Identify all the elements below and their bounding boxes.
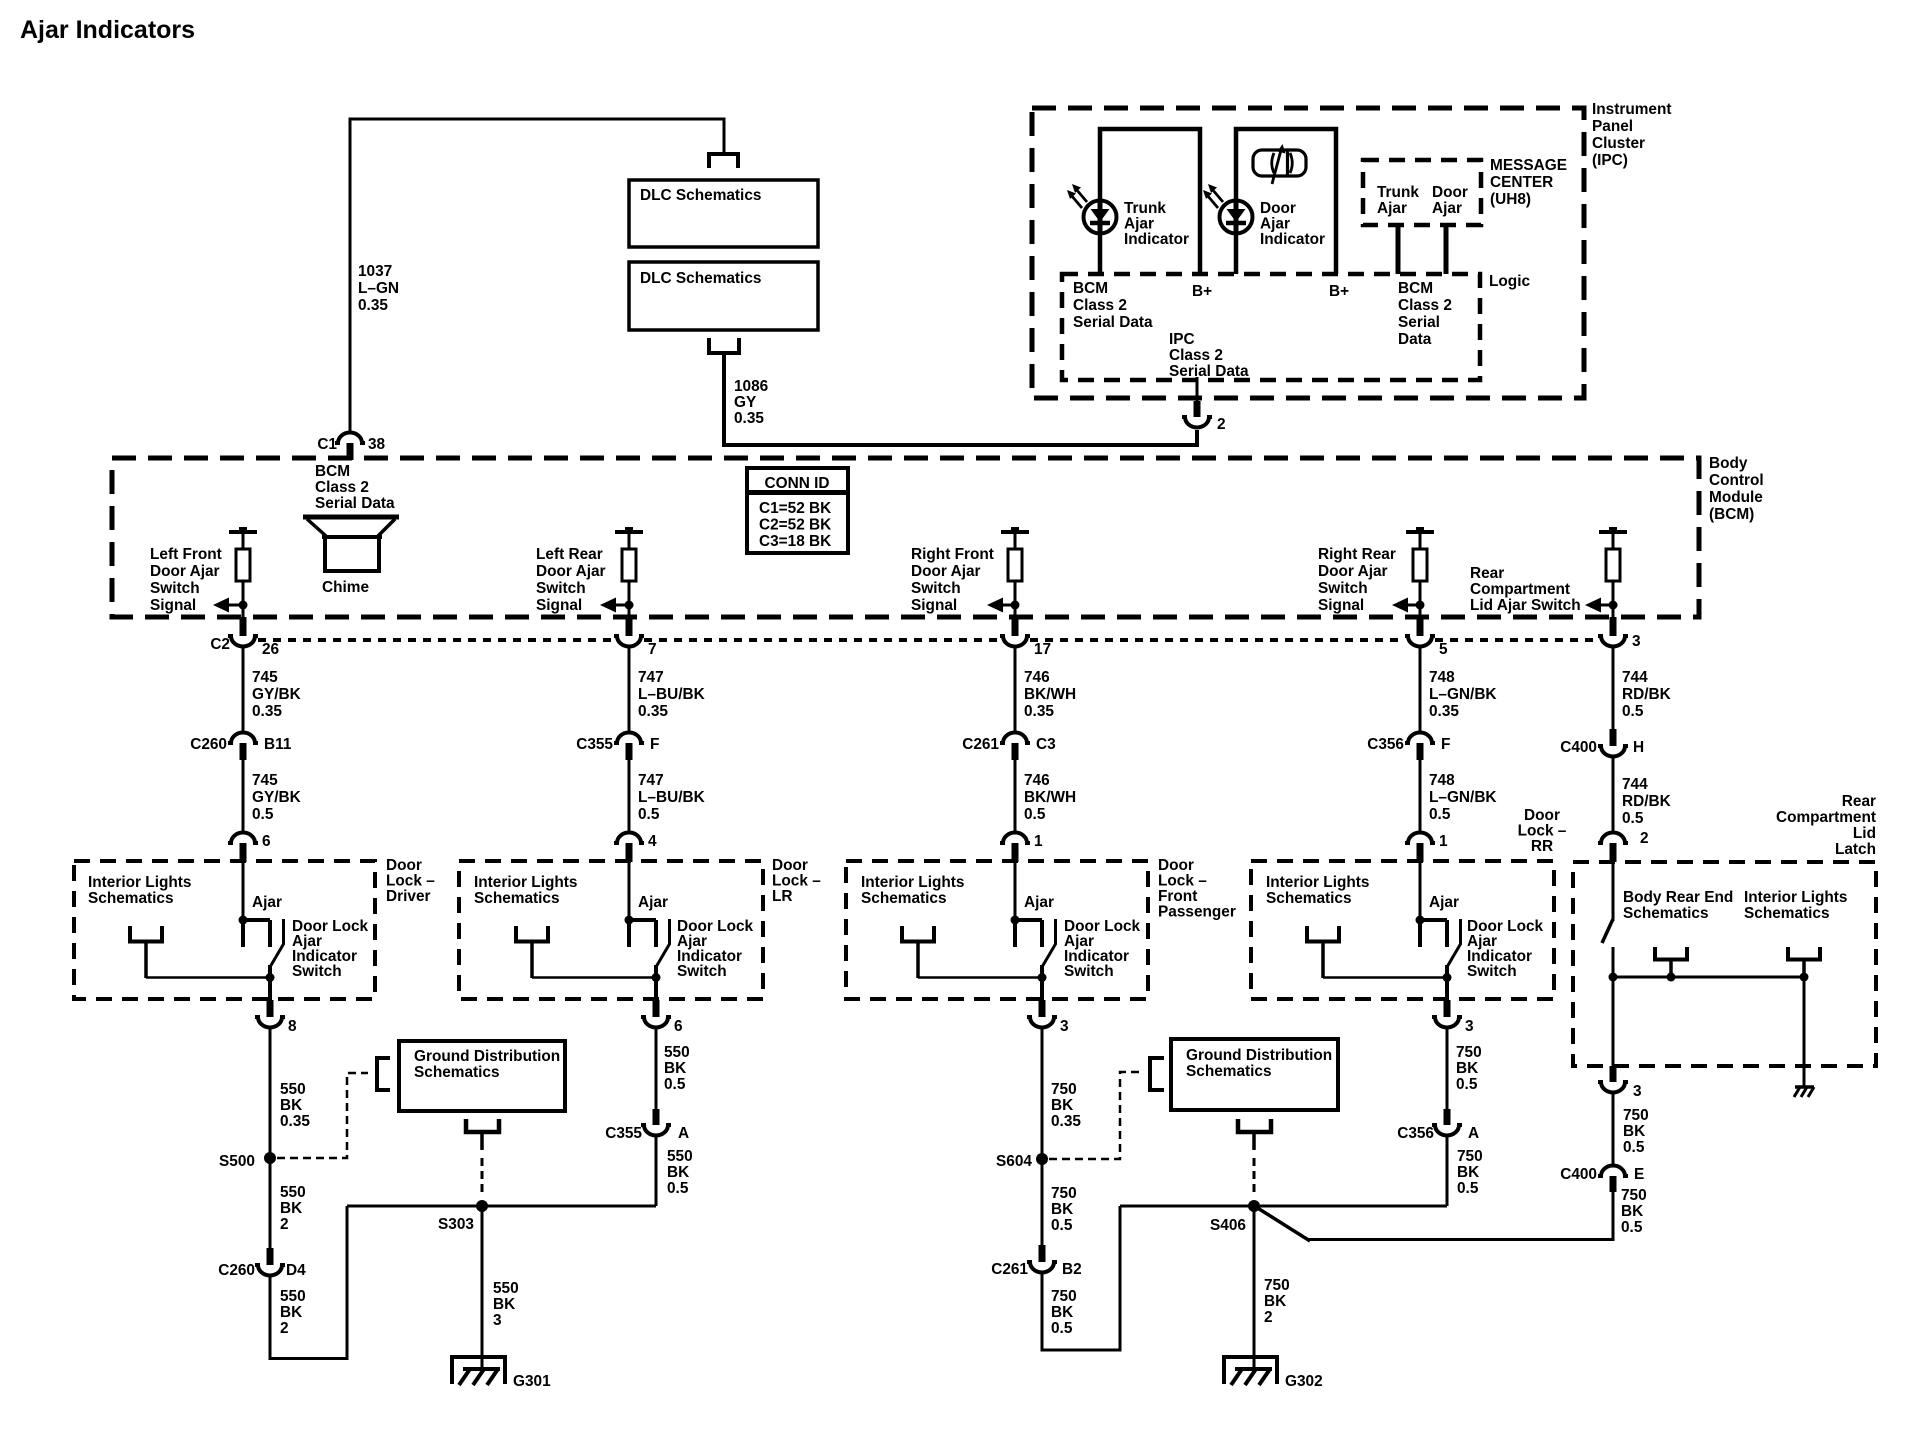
box door lock switch 2 dashed: [459, 861, 763, 999]
wire diagonal to S406: [1256, 1207, 1310, 1241]
svg-text:Switch: Switch: [150, 580, 200, 597]
svg-text:2: 2: [280, 1320, 289, 1337]
svg-text:Ajar: Ajar: [1024, 894, 1054, 911]
box CONN ID: [747, 468, 848, 553]
svg-text:6: 6: [674, 1018, 683, 1035]
connector BCM C2 pin 7: [626, 617, 633, 636]
svg-text:Latch: Latch: [1835, 841, 1876, 858]
svg-text:C261: C261: [962, 736, 999, 753]
arrow left front door ajar switch signal: [223, 604, 243, 607]
svg-text:BK: BK: [1457, 1164, 1479, 1181]
connector door switch ground pin 6: [653, 1000, 660, 1017]
box DLC Schematics upper: [629, 180, 818, 247]
svg-text:BK/WH: BK/WH: [1024, 789, 1076, 806]
connector C260 pin B11: [228, 733, 258, 743]
svg-text:Indicator: Indicator: [1124, 231, 1189, 248]
box door lock switch 3 dashed: [846, 861, 1148, 999]
connector door switch pin 2: [1598, 833, 1628, 844]
wire S604 to ground distribution dashed: [1049, 1072, 1141, 1159]
svg-text:Door: Door: [386, 857, 422, 874]
connector C260 pin D4: [267, 1248, 274, 1265]
box rear compartment lid latch dashed: [1573, 862, 1876, 1066]
svg-text:BK/WH: BK/WH: [1024, 686, 1076, 703]
svg-text:0.5: 0.5: [1456, 1076, 1478, 1093]
box Ground Distribution Schematics B: [1171, 1039, 1338, 1110]
svg-text:550: 550: [280, 1288, 306, 1305]
svg-text:5: 5: [1439, 641, 1448, 658]
svg-text:A: A: [678, 1125, 689, 1142]
svg-text:0.5: 0.5: [1024, 806, 1046, 823]
svg-text:Compartment: Compartment: [1776, 809, 1876, 826]
svg-text:Interior Lights: Interior Lights: [1744, 889, 1847, 906]
svg-text:BK: BK: [1051, 1201, 1073, 1218]
svg-text:0.35: 0.35: [1429, 703, 1459, 720]
wire right front door ajar to connector: [1014, 605, 1017, 618]
svg-text:S604: S604: [996, 1153, 1032, 1170]
wire 550 BK 0.5 upper: [655, 1029, 658, 1110]
svg-text:0.5: 0.5: [252, 806, 274, 823]
resistor rear compartment lid ajar switch sense: [1599, 527, 1627, 601]
svg-text:0.35: 0.35: [734, 410, 764, 427]
connector BCM C2 pin 17: [1012, 617, 1019, 636]
svg-text:1: 1: [1439, 833, 1448, 850]
svg-text:0.35: 0.35: [252, 703, 282, 720]
svg-text:B+: B+: [1329, 283, 1349, 300]
svg-text:2: 2: [1264, 1309, 1273, 1326]
LED door ajar indicator: [1203, 184, 1253, 234]
wire lamp return 1: [146, 976, 270, 979]
connector door switch pin 1: [1000, 833, 1030, 844]
wire 1086 GY from DLC to IPC connector 2: [724, 351, 1197, 445]
connector door switch pin 4: [614, 833, 644, 844]
wire 744 rear compartment lid ajar upper: [1612, 648, 1615, 732]
svg-text:744: 744: [1622, 669, 1648, 686]
svg-text:GY/BK: GY/BK: [252, 789, 301, 806]
svg-text:0.5: 0.5: [1622, 810, 1644, 827]
wire right rear door ajar to connector: [1419, 605, 1422, 618]
connector BCM C2 pin 26: [240, 617, 247, 636]
svg-text:Door: Door: [1524, 807, 1560, 824]
svg-text:RR: RR: [1531, 838, 1553, 855]
switch door lock ajar indicator 1: [239, 916, 284, 1001]
svg-text:Indicator: Indicator: [1260, 231, 1325, 248]
arrow right rear door ajar switch signal: [1402, 604, 1420, 607]
wire left rear door ajar to connector: [628, 605, 631, 618]
connector C356 pin F: [1405, 733, 1435, 743]
bracket body rear end feed: [1655, 947, 1687, 960]
wire 744 rear compartment lid ajar lower: [1612, 758, 1615, 832]
wire S406 bus: [1120, 1205, 1447, 1208]
svg-text:745: 745: [252, 772, 278, 789]
svg-text:DLC Schematics: DLC Schematics: [640, 270, 761, 287]
node switch common 1: [266, 973, 275, 982]
svg-text:Interior Lights: Interior Lights: [1266, 874, 1369, 891]
wire ground distribution A dashed: [481, 1158, 484, 1194]
connector C261 pin C3: [1000, 733, 1030, 743]
connector 2 IPC: [1194, 401, 1201, 417]
wire lid latch common: [1612, 947, 1615, 1067]
wire 747 left rear door ajar lower: [628, 758, 631, 832]
svg-text:G302: G302: [1285, 1373, 1323, 1390]
svg-text:Class 2: Class 2: [1398, 297, 1452, 314]
svg-text:550: 550: [664, 1044, 690, 1061]
svg-text:746: 746: [1024, 772, 1050, 789]
svg-text:Body Rear End: Body Rear End: [1623, 889, 1733, 906]
connector BCM C2 pin 3: [1610, 617, 1617, 636]
svg-text:G301: G301: [513, 1373, 551, 1390]
svg-text:0.5: 0.5: [638, 806, 660, 823]
box Ground Distribution Schematics A: [399, 1041, 565, 1111]
svg-text:C2=52 BK: C2=52 BK: [759, 517, 831, 534]
ground G302: [1224, 1357, 1277, 1385]
svg-text:C1=52 BK: C1=52 BK: [759, 500, 831, 517]
wire 750 BK 0.5 col4 upper: [1446, 1029, 1449, 1110]
splice S303: [476, 1200, 488, 1212]
svg-text:750: 750: [1051, 1185, 1077, 1202]
wire door ajar to logic: [1444, 224, 1449, 274]
svg-text:Left Front: Left Front: [150, 546, 222, 563]
svg-text:C2: C2: [210, 636, 230, 653]
svg-text:Lid: Lid: [1853, 825, 1876, 842]
svg-text:Switch: Switch: [292, 963, 342, 980]
LED trunk ajar indicator: [1067, 184, 1117, 234]
bracket interior lights feed 1: [130, 926, 162, 942]
wire lamp return 3: [918, 976, 1042, 979]
svg-text:Signal: Signal: [911, 597, 957, 614]
wire dotted BCM connector row: [258, 638, 614, 642]
svg-text:0.35: 0.35: [358, 297, 388, 314]
svg-text:0.5: 0.5: [1457, 1180, 1479, 1197]
connector door switch ground pin 3: [1039, 1000, 1046, 1017]
svg-text:BK: BK: [1051, 1097, 1073, 1114]
svg-text:Compartment: Compartment: [1470, 581, 1570, 598]
svg-text:750: 750: [1621, 1187, 1647, 1204]
svg-text:(IPC): (IPC): [1592, 152, 1628, 169]
wire left front door ajar to connector: [242, 605, 245, 618]
wire switch feed left front door ajar: [242, 861, 245, 921]
svg-text:Rear: Rear: [1842, 793, 1876, 810]
svg-text:(BCM): (BCM): [1709, 506, 1754, 523]
connector door switch pin 6: [228, 833, 258, 844]
svg-text:Serial Data: Serial Data: [315, 495, 395, 512]
wire rear compartment lid ajar to connector: [1612, 605, 1615, 618]
svg-text:Schematics: Schematics: [474, 890, 560, 907]
svg-text:Right Rear: Right Rear: [1318, 546, 1396, 563]
wire switch feed left rear door ajar: [628, 861, 631, 921]
svg-text:L–BU/BK: L–BU/BK: [638, 789, 705, 806]
svg-text:Door Ajar: Door Ajar: [536, 563, 606, 580]
svg-text:0.35: 0.35: [638, 703, 668, 720]
svg-text:D4: D4: [286, 1262, 306, 1279]
box door indicator branch: [1236, 129, 1336, 274]
svg-text:2: 2: [1217, 416, 1226, 433]
svg-text:L–GN: L–GN: [358, 280, 399, 297]
node right rear door ajar signal junction: [1416, 601, 1425, 610]
wire 550 BK 2 to S303: [270, 1206, 347, 1359]
wire 750 BK 0.5 lid upper: [1612, 1094, 1615, 1165]
svg-text:Panel: Panel: [1592, 118, 1633, 135]
svg-text:Interior Lights: Interior Lights: [88, 874, 191, 891]
wire 748 right rear door ajar upper: [1419, 648, 1422, 732]
box MESSAGE CENTER UH8 dashed: [1363, 160, 1481, 225]
svg-text:0.5: 0.5: [1621, 1219, 1643, 1236]
ground G301: [452, 1357, 505, 1385]
svg-text:3: 3: [493, 1312, 502, 1329]
svg-text:BK: BK: [1264, 1293, 1286, 1310]
wire 750 BK 0.5 col4 lower: [1446, 1137, 1449, 1206]
svg-text:Switch: Switch: [911, 580, 961, 597]
svg-text:Lid Ajar Switch: Lid Ajar Switch: [1470, 597, 1581, 614]
wire trunk ajar to logic: [1396, 224, 1401, 274]
bracket interior lights feed lid: [1788, 947, 1820, 960]
svg-text:8: 8: [288, 1018, 297, 1035]
svg-text:Class 2: Class 2: [1169, 347, 1223, 364]
svg-text:0.5: 0.5: [667, 1180, 689, 1197]
wire 750 BK 0.5 to S406: [1042, 1206, 1120, 1350]
wire 750 BK 2 to G302: [1253, 1206, 1256, 1369]
svg-text:Schematics: Schematics: [1744, 905, 1830, 922]
arrow rear compartment lid ajar switch signal: [1595, 604, 1613, 607]
svg-text:C356: C356: [1367, 736, 1404, 753]
connector lid latch pin 3: [1610, 1066, 1617, 1082]
svg-text:Lock –: Lock –: [772, 873, 821, 890]
svg-text:748: 748: [1429, 772, 1455, 789]
svg-text:BK: BK: [280, 1200, 302, 1217]
svg-text:0.5: 0.5: [1622, 703, 1644, 720]
connector C261 pin B2: [1039, 1245, 1046, 1262]
svg-text:L–GN/BK: L–GN/BK: [1429, 789, 1497, 806]
connector C356 pin A: [1444, 1109, 1451, 1125]
svg-text:744: 744: [1622, 776, 1648, 793]
arrow right front door ajar switch signal: [997, 604, 1015, 607]
svg-text:550: 550: [667, 1148, 693, 1165]
splice S604: [1036, 1153, 1048, 1165]
svg-text:B+: B+: [1192, 283, 1212, 300]
svg-text:750: 750: [1264, 1277, 1290, 1294]
box DLC Schematics lower: [629, 262, 818, 330]
connector bracket DLC bottom: [709, 338, 739, 353]
svg-text:Body: Body: [1709, 455, 1748, 472]
svg-text:Ajar Indicators: Ajar Indicators: [20, 16, 195, 44]
svg-text:CONN ID: CONN ID: [765, 475, 830, 492]
svg-text:Schematics: Schematics: [1623, 905, 1709, 922]
svg-text:17: 17: [1034, 641, 1051, 658]
switch door lock ajar indicator 2: [625, 916, 670, 1001]
svg-text:Class 2: Class 2: [315, 479, 369, 496]
wire lamp return 4: [1323, 976, 1447, 979]
svg-text:BK: BK: [280, 1304, 302, 1321]
wire 550 BK 0.35: [269, 1029, 272, 1159]
node switch common 3: [1038, 973, 1047, 982]
svg-text:C355: C355: [576, 736, 613, 753]
svg-text:A: A: [1468, 1125, 1479, 1142]
svg-text:Chime: Chime: [322, 579, 369, 596]
svg-text:BK: BK: [280, 1097, 302, 1114]
resistor left front door ajar switch sense: [229, 527, 257, 601]
svg-text:S303: S303: [438, 1216, 474, 1233]
svg-text:Interior Lights: Interior Lights: [861, 874, 964, 891]
box Instrument Panel Cluster IPC dashed: [1032, 108, 1584, 398]
svg-text:Trunk: Trunk: [1124, 200, 1166, 217]
svg-text:Switch: Switch: [1064, 963, 1114, 980]
svg-text:3: 3: [1632, 633, 1641, 650]
ground lid latch internal: [1794, 1087, 1814, 1097]
svg-text:3: 3: [1465, 1018, 1474, 1035]
svg-text:RD/BK: RD/BK: [1622, 793, 1671, 810]
svg-text:747: 747: [638, 669, 664, 686]
svg-text:2: 2: [280, 1216, 289, 1233]
svg-text:Ajar: Ajar: [252, 894, 282, 911]
wire 750 BK 0.5 upper mid: [1041, 1158, 1044, 1246]
svg-text:747: 747: [638, 772, 664, 789]
wire 550 BK 3 to G301: [481, 1206, 484, 1369]
arrow left rear door ajar switch signal: [610, 604, 629, 607]
svg-text:Serial Data: Serial Data: [1169, 363, 1249, 380]
svg-text:Signal: Signal: [150, 597, 196, 614]
svg-text:3: 3: [1060, 1018, 1069, 1035]
connector C355 pin A: [653, 1109, 660, 1125]
svg-text:Switch: Switch: [536, 580, 586, 597]
svg-text:LR: LR: [772, 888, 793, 905]
box Body Control Module BCM dashed: [112, 458, 1699, 617]
connector door switch pin 1: [1405, 833, 1435, 844]
wire switch feed right rear door ajar: [1419, 861, 1422, 921]
bracket ground distribution B: [1150, 1058, 1164, 1090]
svg-text:0.5: 0.5: [1051, 1217, 1073, 1234]
svg-text:Door: Door: [1260, 200, 1296, 217]
connector BCM C2 pin 5: [1417, 617, 1424, 636]
svg-text:BK: BK: [667, 1164, 689, 1181]
connector door switch ground pin 8: [267, 1000, 274, 1017]
wire 748 right rear door ajar lower: [1419, 758, 1422, 832]
wire 550 BK 0.5 lower: [655, 1137, 658, 1206]
svg-text:0.5: 0.5: [1623, 1139, 1645, 1156]
svg-text:0.35: 0.35: [1051, 1113, 1081, 1130]
svg-text:1: 1: [1034, 833, 1043, 850]
svg-text:0.35: 0.35: [280, 1113, 310, 1130]
svg-text:Interior Lights: Interior Lights: [474, 874, 577, 891]
wire to lid latch ground: [1803, 977, 1806, 1088]
svg-text:Signal: Signal: [1318, 597, 1364, 614]
svg-text:RD/BK: RD/BK: [1622, 686, 1671, 703]
wire 550 BK 2 upper: [269, 1158, 272, 1249]
switch door lock ajar indicator 3: [1011, 916, 1056, 1001]
svg-text:Serial Data: Serial Data: [1073, 314, 1153, 331]
box door lock switch 4 dashed: [1251, 861, 1554, 999]
svg-text:Switch: Switch: [1467, 963, 1517, 980]
svg-text:Schematics: Schematics: [861, 890, 947, 907]
svg-text:BK: BK: [664, 1060, 686, 1077]
svg-text:DLC Schematics: DLC Schematics: [640, 187, 761, 204]
svg-text:Control: Control: [1709, 472, 1764, 489]
svg-text:Lock –: Lock –: [1518, 823, 1567, 840]
svg-text:Instrument: Instrument: [1592, 101, 1672, 118]
svg-text:Ground Distribution: Ground Distribution: [1186, 1047, 1332, 1064]
chime speaker: [303, 517, 399, 571]
svg-text:Ajar: Ajar: [1377, 200, 1407, 217]
wire S303 bus: [347, 1205, 656, 1208]
node switch common 4: [1443, 973, 1452, 982]
svg-text:IPC: IPC: [1169, 331, 1195, 348]
svg-text:Data: Data: [1398, 331, 1432, 348]
svg-text:B11: B11: [264, 736, 292, 753]
bracket interior lights feed 4: [1307, 926, 1339, 942]
wire lamp return 2: [532, 976, 656, 979]
svg-text:Schematics: Schematics: [1266, 890, 1352, 907]
svg-text:L–BU/BK: L–BU/BK: [638, 686, 705, 703]
resistor right front door ajar switch sense: [1001, 527, 1029, 601]
svg-text:C260: C260: [190, 736, 227, 753]
svg-text:0.5: 0.5: [664, 1076, 686, 1093]
resistor right rear door ajar switch sense: [1406, 527, 1434, 601]
connector C1 pin 38: [335, 433, 365, 444]
splice S406: [1248, 1200, 1260, 1212]
svg-text:Ajar: Ajar: [1432, 200, 1462, 217]
svg-text:Ajar: Ajar: [1124, 216, 1154, 233]
svg-text:C1: C1: [317, 436, 337, 453]
svg-text:Passenger: Passenger: [1158, 904, 1236, 921]
svg-text:B2: B2: [1062, 1261, 1082, 1278]
box door lock switch 1 dashed: [74, 861, 375, 999]
wire 746 right front door ajar lower: [1014, 758, 1017, 832]
svg-text:750: 750: [1051, 1288, 1077, 1305]
svg-text:Door Ajar: Door Ajar: [911, 563, 981, 580]
svg-text:Trunk: Trunk: [1377, 184, 1419, 201]
svg-text:BCM: BCM: [1073, 280, 1108, 297]
bracket interior lights feed 3: [902, 926, 934, 942]
node left front door ajar signal junction: [239, 601, 248, 610]
bracket ground distribution A lower: [466, 1119, 499, 1132]
bracket interior lights feed 2: [516, 926, 548, 942]
svg-text:Ajar: Ajar: [1429, 894, 1459, 911]
svg-text:0.35: 0.35: [1024, 703, 1054, 720]
svg-text:Serial: Serial: [1398, 314, 1440, 331]
wire 747 left rear door ajar upper: [628, 648, 631, 732]
wire 750 BK 0.5 lid lower: [1308, 1191, 1613, 1240]
svg-text:3: 3: [1633, 1083, 1642, 1100]
svg-text:Front: Front: [1158, 888, 1197, 905]
svg-text:GY: GY: [734, 394, 757, 411]
wire switch feed right front door ajar: [1014, 861, 1017, 921]
svg-text:Door: Door: [1158, 857, 1194, 874]
svg-text:C261: C261: [991, 1261, 1028, 1278]
resistor left rear door ajar switch sense: [615, 527, 643, 601]
node rear compartment lid ajar signal junction: [1609, 601, 1618, 610]
svg-text:BCM: BCM: [1398, 280, 1433, 297]
node interior lights tap: [1800, 973, 1809, 982]
svg-text:7: 7: [648, 641, 657, 658]
svg-text:BK: BK: [493, 1296, 515, 1313]
wire IPC serial data output: [1196, 377, 1199, 402]
svg-text:26: 26: [262, 641, 279, 658]
icon car top view: [1253, 144, 1306, 184]
bracket ground distribution B lower: [1238, 1119, 1271, 1132]
box Logic dashed: [1062, 274, 1480, 380]
svg-text:BK: BK: [1456, 1060, 1478, 1077]
svg-text:Module: Module: [1709, 489, 1763, 506]
svg-text:CENTER: CENTER: [1490, 174, 1553, 191]
wire S500 to ground distribution dashed: [277, 1073, 368, 1158]
svg-text:Schematics: Schematics: [88, 890, 174, 907]
node switch common 2: [652, 973, 661, 982]
svg-text:Switch: Switch: [1318, 580, 1368, 597]
svg-text:2: 2: [1640, 830, 1649, 847]
switch door lock ajar indicator 4: [1416, 916, 1461, 1001]
svg-text:F: F: [650, 736, 659, 753]
bracket ground distribution A: [377, 1058, 390, 1090]
svg-text:750: 750: [1457, 1148, 1483, 1165]
connector C400 pin E: [1598, 1166, 1628, 1177]
